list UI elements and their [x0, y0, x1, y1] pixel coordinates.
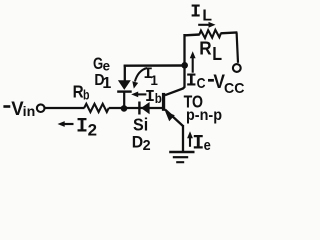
svg-text:1: 1	[102, 75, 111, 92]
curved current arrow I1	[132, 68, 147, 89]
ground	[169, 152, 194, 162]
svg-text:p-n-p: p-n-p	[186, 107, 222, 124]
current arrow Ib	[131, 92, 146, 98]
diode D2 (Si)	[139, 102, 149, 115]
svg-text:b: b	[155, 91, 162, 106]
transistor Q1 emitter lead	[165, 110, 183, 127]
wire down to -Vcc terminal	[237, 33, 238, 63]
svg-text:2: 2	[88, 122, 97, 140]
svg-text:C: C	[197, 75, 206, 92]
label Rb	[73, 82, 90, 103]
resistor Rb	[84, 104, 109, 112]
svg-text:in: in	[23, 103, 36, 119]
-Vcc terminal circle	[233, 64, 241, 72]
top rail right	[220, 31, 237, 34]
wire D1 top to corner	[124, 65, 126, 81]
svg-text:I: I	[186, 71, 197, 92]
transistor Q1 collector lead	[165, 34, 185, 95]
top rail with resistor RL (slight scan tilt)	[183, 29, 237, 40]
svg-text:L: L	[202, 7, 212, 24]
svg-text:L: L	[212, 44, 222, 64]
label RL	[199, 37, 222, 64]
svg-text:b: b	[83, 88, 90, 103]
wire terminal to Rb	[45, 107, 85, 109]
svg-text:I: I	[76, 116, 88, 139]
svg-text:CC: CC	[224, 80, 245, 97]
wire node up to D1	[123, 91, 125, 109]
label -Vin	[3, 99, 35, 120]
svg-text:e: e	[103, 57, 111, 73]
node junction dot A	[121, 105, 128, 112]
label Ge	[93, 55, 110, 73]
collector junction dot	[181, 62, 188, 69]
label I1	[143, 65, 158, 88]
label IC	[186, 71, 206, 93]
diode D1 (Ge)	[117, 80, 132, 91]
label I2	[76, 116, 97, 140]
current arrow Ie	[187, 131, 193, 147]
label Ib	[145, 88, 162, 107]
emitter wire down to ground	[182, 125, 184, 152]
label D2	[132, 132, 151, 153]
svg-text:I: I	[190, 3, 201, 23]
label D1	[94, 72, 111, 92]
current arrow IC	[190, 51, 196, 72]
label IL	[190, 3, 212, 25]
svg-text:1: 1	[150, 73, 158, 88]
top rail left	[184, 33, 200, 36]
current arrow IL	[198, 22, 215, 28]
transistor Q1 base bar	[162, 93, 165, 111]
svg-text:D: D	[132, 132, 143, 151]
wire top horizontal D1 to collector junction	[124, 64, 185, 67]
wire Rb to base (through node)	[109, 107, 163, 109]
svg-text:I: I	[145, 88, 155, 107]
input terminal circle	[37, 104, 45, 112]
label -Vcc	[208, 72, 245, 97]
resistor RL	[199, 30, 221, 39]
current arrow I2	[58, 121, 74, 127]
svg-text:e: e	[204, 137, 211, 154]
transistor Q1 emitter arrow (pnp)	[165, 111, 175, 121]
svg-text:2: 2	[143, 137, 151, 154]
label Ie	[192, 132, 211, 155]
svg-text:R: R	[199, 37, 211, 58]
